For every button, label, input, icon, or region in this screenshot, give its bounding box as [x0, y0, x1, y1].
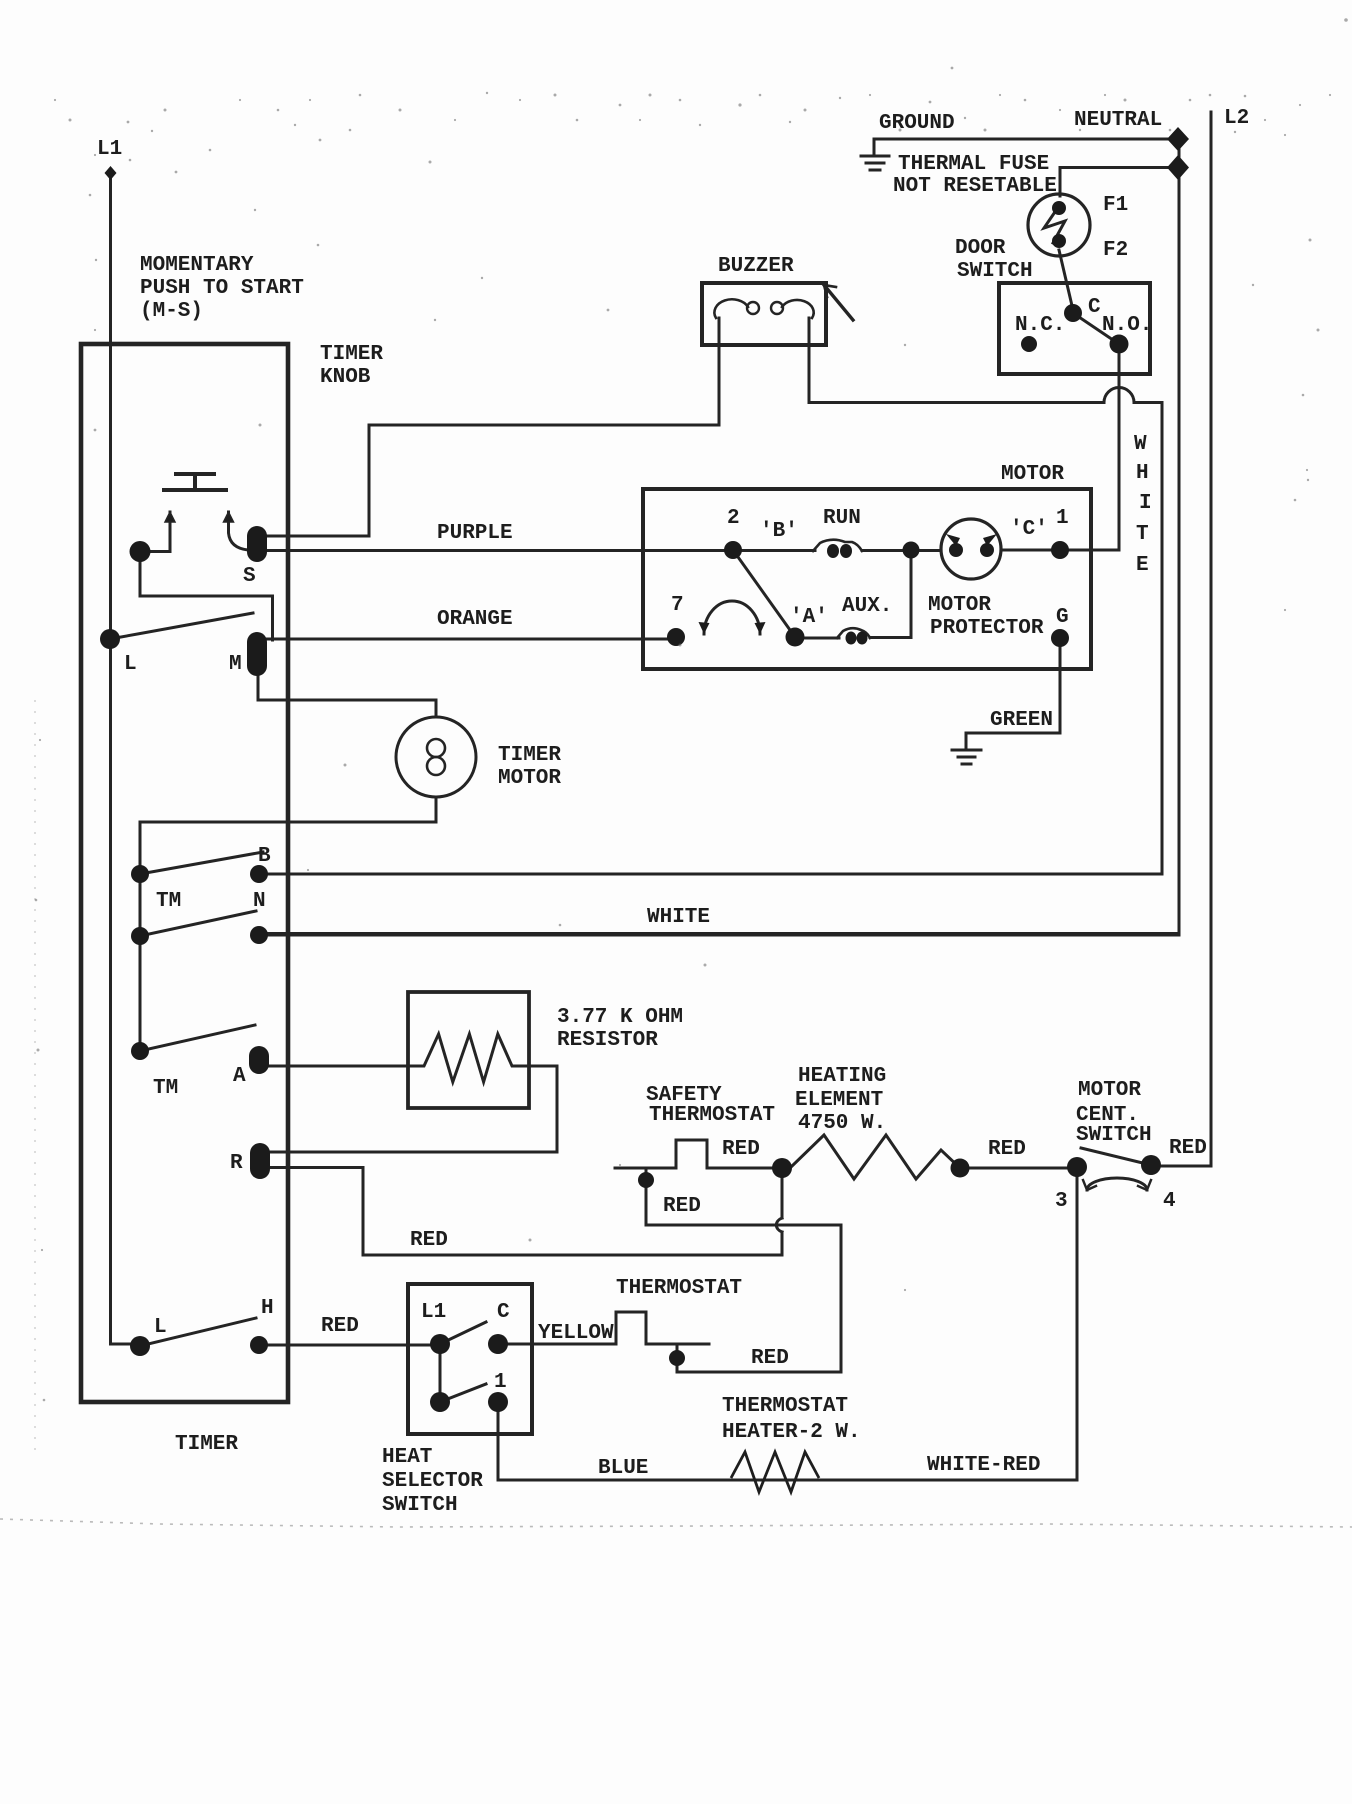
svg-text:L: L: [124, 653, 137, 676]
svg-text:HEAT: HEAT: [382, 1446, 432, 1469]
svg-text:R: R: [230, 1152, 243, 1175]
svg-text:PUSH TO START: PUSH TO START: [140, 277, 304, 300]
svg-text:7: 7: [671, 594, 684, 617]
svg-text:BLUE: BLUE: [598, 1457, 648, 1480]
svg-text:'B': 'B': [760, 520, 798, 543]
svg-text:KNOB: KNOB: [320, 366, 371, 389]
svg-text:RED: RED: [410, 1229, 448, 1252]
svg-text:THERMAL FUSE: THERMAL FUSE: [898, 153, 1049, 176]
svg-text:TIMER: TIMER: [320, 343, 383, 366]
svg-text:TIMER: TIMER: [175, 1433, 238, 1456]
svg-text:NEUTRAL: NEUTRAL: [1074, 109, 1162, 132]
svg-text:RED: RED: [751, 1347, 789, 1370]
svg-text:MOTOR: MOTOR: [498, 767, 561, 790]
svg-text:SELECTOR: SELECTOR: [382, 1470, 483, 1493]
svg-text:3: 3: [1055, 1190, 1068, 1213]
svg-text:MOTOR: MOTOR: [928, 594, 991, 617]
svg-text:SWITCH: SWITCH: [957, 260, 1033, 283]
svg-text:A: A: [233, 1065, 246, 1088]
svg-text:2: 2: [727, 507, 740, 530]
svg-text:RED: RED: [988, 1138, 1026, 1161]
svg-text:S: S: [243, 565, 256, 588]
svg-text:N: N: [253, 890, 266, 913]
svg-text:RED: RED: [1169, 1137, 1207, 1160]
svg-text:HEATING: HEATING: [798, 1065, 886, 1088]
svg-text:'C': 'C': [1010, 518, 1048, 541]
svg-text:F1: F1: [1103, 194, 1128, 217]
svg-text:RED: RED: [722, 1138, 760, 1161]
svg-text:4750 W.: 4750 W.: [798, 1112, 886, 1135]
svg-text:HEATER-2 W.: HEATER-2 W.: [722, 1421, 861, 1444]
svg-text:1: 1: [1056, 507, 1069, 530]
svg-text:N.C.: N.C.: [1015, 314, 1065, 337]
svg-text:E: E: [1136, 554, 1149, 577]
svg-text:G: G: [1056, 606, 1069, 629]
svg-text:BUZZER: BUZZER: [718, 255, 794, 278]
svg-text:N.O.: N.O.: [1102, 314, 1152, 337]
svg-text:SWITCH: SWITCH: [1076, 1124, 1152, 1147]
svg-text:4: 4: [1163, 1190, 1176, 1213]
svg-text:H: H: [261, 1297, 274, 1320]
svg-text:WHITE: WHITE: [647, 906, 710, 929]
svg-text:AUX.: AUX.: [842, 595, 892, 618]
svg-text:T: T: [1136, 523, 1149, 546]
svg-text:RESISTOR: RESISTOR: [557, 1029, 658, 1052]
svg-text:YELLOW: YELLOW: [538, 1322, 614, 1345]
svg-text:PURPLE: PURPLE: [437, 522, 513, 545]
svg-text:B: B: [258, 845, 271, 868]
svg-text:(M-S): (M-S): [140, 300, 203, 323]
svg-text:3.77 K OHM: 3.77 K OHM: [557, 1006, 683, 1029]
svg-text:MOTOR: MOTOR: [1001, 463, 1064, 486]
svg-text:GREEN: GREEN: [990, 709, 1053, 732]
svg-text:ORANGE: ORANGE: [437, 608, 513, 631]
svg-text:'A': 'A': [790, 606, 828, 629]
svg-text:SWITCH: SWITCH: [382, 1494, 458, 1517]
svg-text:C: C: [497, 1301, 510, 1324]
svg-text:L2: L2: [1224, 107, 1249, 130]
svg-text:GROUND: GROUND: [879, 112, 955, 135]
svg-text:W: W: [1134, 433, 1147, 456]
svg-text:MOMENTARY: MOMENTARY: [140, 254, 254, 277]
svg-text:THERMOSTAT: THERMOSTAT: [649, 1104, 775, 1127]
svg-text:C: C: [1088, 296, 1101, 319]
svg-text:L1: L1: [97, 138, 122, 161]
svg-text:TM: TM: [156, 890, 181, 913]
svg-text:M: M: [229, 653, 242, 676]
svg-text:TM: TM: [153, 1077, 178, 1100]
svg-text:H: H: [1136, 462, 1149, 485]
svg-text:L1: L1: [421, 1301, 446, 1324]
svg-text:PROTECTOR: PROTECTOR: [930, 617, 1044, 640]
svg-text:THERMOSTAT: THERMOSTAT: [616, 1277, 742, 1300]
svg-text:DOOR: DOOR: [955, 237, 1006, 260]
svg-text:RUN: RUN: [823, 507, 861, 530]
svg-text:1: 1: [494, 1371, 507, 1394]
svg-text:RED: RED: [321, 1315, 359, 1338]
svg-text:WHITE-RED: WHITE-RED: [927, 1454, 1040, 1477]
svg-text:I: I: [1139, 492, 1152, 515]
svg-text:THERMOSTAT: THERMOSTAT: [722, 1395, 848, 1418]
svg-text:ELEMENT: ELEMENT: [795, 1089, 883, 1112]
svg-text:L: L: [154, 1316, 167, 1339]
svg-text:RED: RED: [663, 1195, 701, 1218]
svg-text:F2: F2: [1103, 239, 1128, 262]
svg-text:MOTOR: MOTOR: [1078, 1079, 1141, 1102]
svg-text:NOT RESETABLE: NOT RESETABLE: [893, 175, 1057, 198]
svg-text:TIMER: TIMER: [498, 744, 561, 767]
